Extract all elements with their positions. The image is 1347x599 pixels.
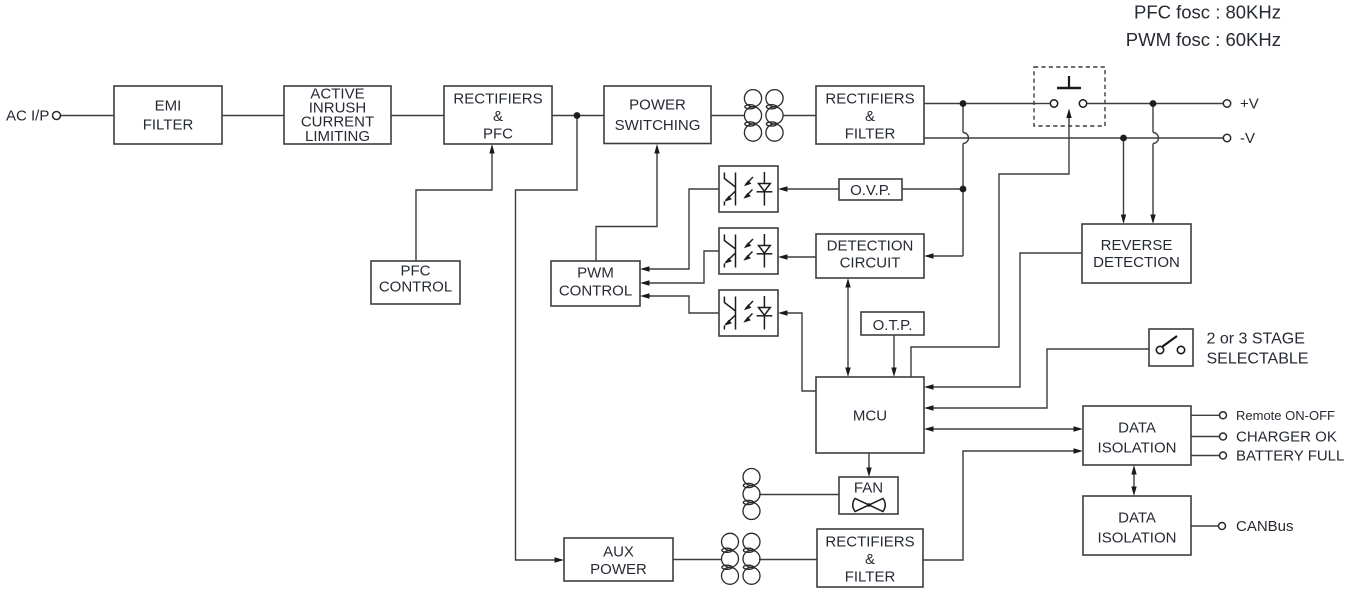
svg-text:FILTER: FILTER xyxy=(845,569,896,586)
svg-text:DETECTION: DETECTION xyxy=(827,238,914,255)
svg-text:REVERSE: REVERSE xyxy=(1101,237,1173,254)
svg-text:ISOLATION: ISOLATION xyxy=(1098,530,1177,547)
svg-text:FILTER: FILTER xyxy=(845,126,896,143)
svg-text:O.T.P.: O.T.P. xyxy=(873,317,913,334)
svg-text:SWITCHING: SWITCHING xyxy=(615,117,701,134)
svg-text:SELECTABLE: SELECTABLE xyxy=(1207,351,1309,368)
svg-text:POWER: POWER xyxy=(590,561,647,578)
svg-text:+V: +V xyxy=(1240,96,1259,113)
svg-text:RECTIFIERS: RECTIFIERS xyxy=(825,534,914,551)
svg-text:DETECTION: DETECTION xyxy=(1093,254,1180,271)
svg-text:PFC: PFC xyxy=(401,263,431,280)
svg-text:PFC: PFC xyxy=(483,126,513,143)
svg-text:PWM fosc : 60KHz: PWM fosc : 60KHz xyxy=(1126,29,1281,50)
svg-text:CONTROL: CONTROL xyxy=(559,283,632,300)
svg-text:CIRCUIT: CIRCUIT xyxy=(840,255,901,272)
svg-text:CANBus: CANBus xyxy=(1236,518,1294,535)
svg-text:PFC fosc : 80KHz: PFC fosc : 80KHz xyxy=(1134,2,1281,23)
svg-text:BATTERY FULL: BATTERY FULL xyxy=(1236,448,1344,465)
svg-text:O.V.P.: O.V.P. xyxy=(850,182,891,199)
svg-text:AUX: AUX xyxy=(603,544,634,561)
svg-text:RECTIFIERS: RECTIFIERS xyxy=(453,91,542,108)
svg-text:EMI: EMI xyxy=(155,98,182,115)
svg-text:MCU: MCU xyxy=(853,408,887,425)
svg-text:LIMITING: LIMITING xyxy=(305,128,370,145)
svg-text:FAN: FAN xyxy=(854,480,883,497)
svg-text:AC I/P: AC I/P xyxy=(6,108,49,125)
svg-text:PWM: PWM xyxy=(577,265,614,282)
svg-text:CHARGER OK: CHARGER OK xyxy=(1236,429,1337,446)
svg-text:ISOLATION: ISOLATION xyxy=(1098,440,1177,457)
svg-text:DATA: DATA xyxy=(1118,420,1156,437)
svg-text:CONTROL: CONTROL xyxy=(379,279,452,296)
svg-text:POWER: POWER xyxy=(629,97,686,114)
svg-text:FILTER: FILTER xyxy=(143,117,194,134)
svg-text:&: & xyxy=(865,108,875,125)
svg-text:Remote ON-OFF: Remote ON-OFF xyxy=(1236,408,1335,423)
svg-text:-V: -V xyxy=(1240,130,1255,147)
svg-text:&: & xyxy=(865,551,875,568)
svg-text:DATA: DATA xyxy=(1118,510,1156,527)
svg-text:2 or 3 STAGE: 2 or 3 STAGE xyxy=(1207,331,1305,348)
svg-text:&: & xyxy=(493,108,503,125)
svg-text:RECTIFIERS: RECTIFIERS xyxy=(825,91,914,108)
